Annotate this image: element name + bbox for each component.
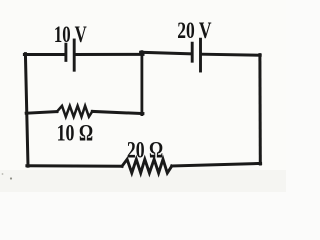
paper background bbox=[0, 0, 286, 192]
svg-text:10 V: 10 V bbox=[54, 22, 87, 47]
battery V2 (20 V): long plate bbox=[199, 39, 202, 71]
resistor R2 (20 ohm) zigzag bbox=[122, 159, 172, 173]
wire: middle branch left segment bbox=[26, 112, 57, 114]
svg-text:20 Ω: 20 Ω bbox=[127, 138, 163, 163]
scan speck bbox=[10, 177, 12, 179]
wire: battery V2 to top-right corner bbox=[202, 54, 260, 55]
scan speck bbox=[2, 173, 4, 175]
wire: battery V1 to middle junction bbox=[76, 53, 143, 56]
wire: right vertical side bbox=[258, 55, 261, 164]
battery V1 (10 V): short plate bbox=[64, 44, 67, 60]
battery V1 (10 V): long plate bbox=[73, 40, 76, 70]
resistor R1 (10 ohm) zigzag bbox=[57, 106, 92, 117]
wire: middle vertical branch bbox=[140, 52, 143, 115]
wire: bottom-right segment bbox=[172, 163, 261, 166]
wire: left vertical side bbox=[25, 54, 28, 167]
wire: middle branch right segment bbox=[92, 111, 143, 113]
wire: top-right from junction to battery V2 bbox=[141, 52, 191, 54]
svg-text:10 Ω: 10 Ω bbox=[57, 121, 94, 146]
wire: top-left from corner to battery V1 bbox=[24, 53, 64, 56]
svg-text:20 V: 20 V bbox=[177, 18, 211, 43]
wire: bottom-left segment bbox=[27, 164, 122, 167]
battery V2 (20 V): short plate bbox=[191, 43, 194, 61]
